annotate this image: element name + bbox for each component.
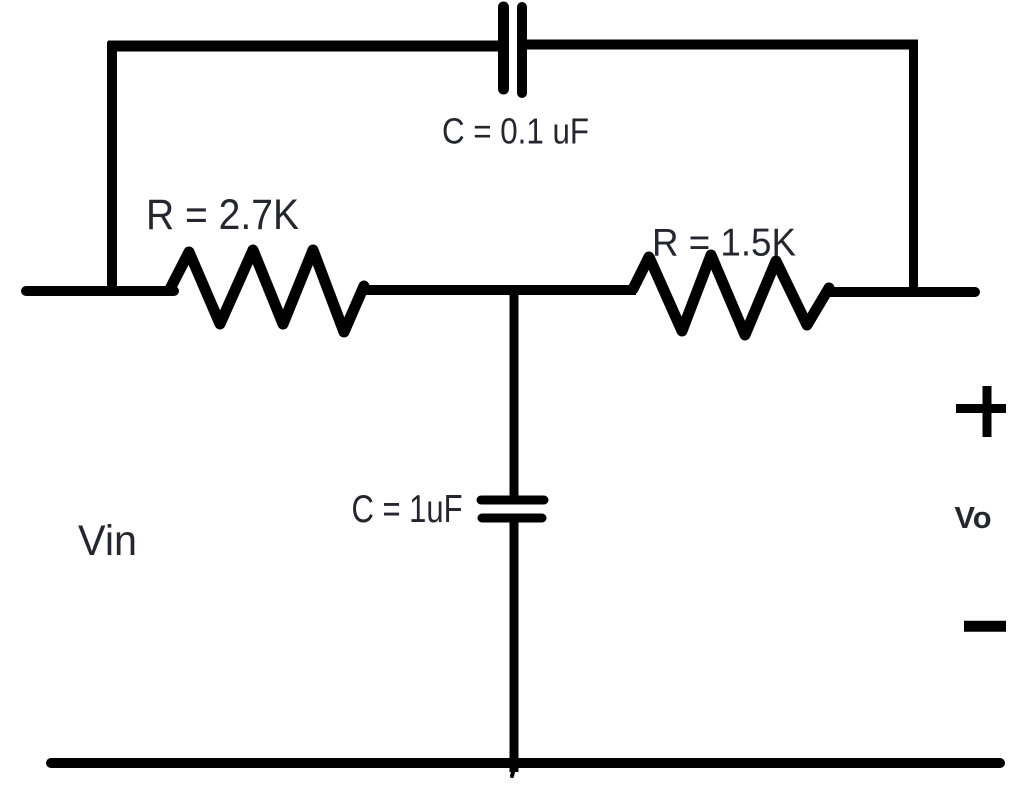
wire center vertical lower (C plate to bottom rail)	[512, 518, 514, 776]
label Vo	[955, 500, 992, 535]
plus sign (output polarity)	[956, 386, 1006, 437]
wire middle-left horizontal	[26, 286, 174, 296]
wire middle-right horizontal	[826, 287, 975, 297]
value label R = 2.7K	[146, 191, 299, 239]
wire right vertical	[909, 41, 918, 294]
wire middle-center horizontal	[360, 285, 636, 295]
svg-text:R = 2.7K: R = 2.7K	[146, 191, 299, 239]
svg-text:Vin: Vin	[78, 517, 137, 565]
capacitor C2 plate top	[481, 496, 544, 505]
svg-text:Vo: Vo	[955, 500, 992, 535]
value label C = 0.1 uF	[442, 111, 589, 152]
svg-text:C = 0.1 uF: C = 0.1 uF	[442, 111, 589, 152]
wire top-right horizontal	[527, 40, 918, 50]
wire center vertical upper (node to C plate)	[510, 288, 519, 499]
wire bottom rail	[51, 758, 1000, 768]
label Vin	[78, 517, 137, 565]
resistor R1 = 2.7K zigzag	[170, 250, 364, 332]
capacitor C3 plate left	[498, 7, 509, 89]
value label R = 1.5K	[652, 222, 796, 265]
value label C = 1uF	[352, 488, 463, 531]
resistor R2 = 1.5K zigzag	[633, 255, 829, 335]
wire left vertical	[107, 42, 117, 297]
capacitor C2 plate bottom	[482, 514, 542, 523]
svg-text:C = 1uF: C = 1uF	[352, 488, 463, 531]
wire top-left horizontal	[108, 41, 500, 52]
capacitor C3 plate right	[517, 7, 527, 93]
minus sign (output polarity)	[964, 621, 1006, 632]
